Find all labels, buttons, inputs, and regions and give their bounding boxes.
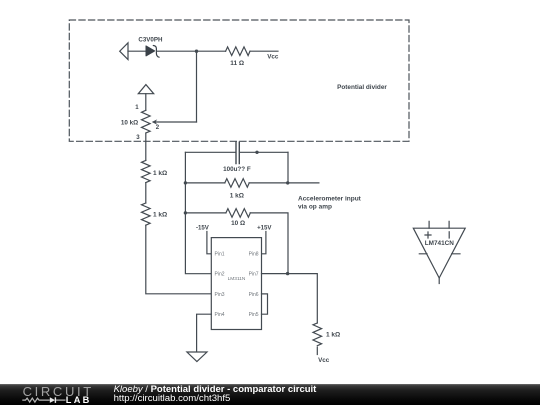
svg-text:Pin4: Pin4 (215, 312, 225, 318)
pin label Pin7 (249, 272, 259, 278)
junction dot (left rail / 10 ohm row) (184, 211, 187, 214)
pin label Pin4 (215, 312, 225, 318)
svg-text:Pin7: Pin7 (249, 272, 259, 278)
label: Potential divider (337, 84, 387, 91)
wire: Pin4 to ground (197, 314, 212, 352)
resistor R6 10 Ohm (horizontal) (226, 209, 250, 218)
op-amp power pin stubs (419, 253, 460, 255)
svg-text:+15V: +15V (257, 225, 272, 232)
dashed enclosure box (Potential divider) (69, 20, 409, 141)
net label: +15V (257, 225, 272, 232)
pin label Pin5 (249, 312, 259, 318)
svg-text:Pin6: Pin6 (249, 292, 259, 298)
wire: 1k row left segment (185, 182, 224, 184)
wire: output node right and down to R7 (288, 274, 318, 323)
label: 1 kOhm (R5) (230, 192, 244, 199)
svg-text:1 kΩ: 1 kΩ (153, 211, 167, 218)
wire: top node down to wiper (196, 51, 198, 122)
potentiometer R2 10k body (142, 110, 151, 133)
wire: diode cathode to node junction (157, 50, 226, 52)
svg-text:Accelerometer input: Accelerometer input (298, 196, 362, 203)
pin number 1 (135, 104, 139, 111)
svg-text:1 kΩ: 1 kΩ (153, 170, 167, 177)
label: LM741CN (425, 240, 455, 247)
label: 1 kOhm (R7) (326, 332, 340, 339)
wire: R4 down and right to Pin3 (146, 225, 212, 294)
pin label Pin2 (215, 272, 225, 278)
svg-text:2: 2 (156, 124, 160, 131)
svg-text:Vcc: Vcc (267, 54, 279, 61)
svg-text:100u?? F: 100u?? F (223, 166, 251, 173)
svg-text:Pin2: Pin2 (215, 272, 225, 278)
svg-text:1 kΩ: 1 kΩ (326, 332, 340, 339)
wire: Pin6-Pin5 strap (262, 294, 268, 314)
svg-text:11 Ω: 11 Ω (230, 60, 244, 67)
resistor R1 11 Ohm (226, 47, 250, 56)
wire: capacitor right plate to right rail (240, 151, 288, 153)
svg-text:Pin8: Pin8 (249, 252, 259, 258)
label: C3V0PH (138, 36, 163, 43)
wire: Pin7 to output node (262, 273, 288, 275)
port P2 (up-pointing terminal above potentiometer) (138, 85, 153, 94)
svg-text:1: 1 (135, 104, 139, 111)
svg-text:10 kΩ: 10 kΩ (121, 120, 138, 127)
wire: port P2 to potentiometer pin1 (145, 94, 147, 111)
label: 10 kOhm (121, 120, 138, 127)
svg-text:1 kΩ: 1 kΩ (230, 192, 244, 199)
IC U1 LM311N body (211, 238, 261, 330)
port P1 (left-pointing input terminal) (120, 43, 128, 60)
resistor R4 1 kOhm (vertical, lower) (142, 203, 151, 225)
svg-text:Pin5: Pin5 (249, 312, 259, 318)
wire: R7 to Vcc (316, 347, 318, 354)
annotation: Accelerometer input via op amp (298, 196, 362, 211)
wiper arrowhead of potentiometer R2 (152, 119, 158, 124)
wire: top row left segment to capacitor (185, 151, 235, 153)
svg-text:via op amp: via op amp (298, 204, 332, 211)
junction dot (right rail / 1k row) (286, 181, 289, 184)
svg-text:Pin3: Pin3 (215, 292, 225, 298)
junction dot (capacitor row) (255, 151, 258, 154)
op-amp - input mark (rotated) (448, 232, 450, 238)
svg-text:LM311N: LM311N (228, 276, 246, 282)
wire: +15V to Pin8 (262, 232, 266, 254)
svg-text:Potential divider: Potential divider (337, 84, 387, 91)
resistor R3 1 kOhm (vertical, upper) (142, 160, 151, 182)
svg-text:Vcc: Vcc (318, 357, 330, 364)
label: 1 kOhm (R4) (153, 211, 167, 218)
label: 1 kOhm (R3) (153, 170, 167, 177)
resistor R7 1 kOhm (vertical, bottom right) (313, 323, 322, 346)
label: 10 Ohm (R6) (231, 220, 245, 227)
svg-text:10 Ω: 10 Ω (231, 220, 245, 227)
wire: R3 to R4 (145, 183, 147, 203)
wire: 10 ohm row right, down to Pin7 node (250, 213, 288, 274)
resistor R5 1 kOhm (horizontal) (225, 179, 249, 188)
pin label Pin3 (215, 292, 225, 298)
svg-text:C3V0PH: C3V0PH (138, 36, 163, 43)
wire: left rail down to Pin2 (185, 152, 211, 273)
wire: right rail (cap row to 1k row) (287, 152, 289, 183)
net label: Vcc (bottom) (318, 357, 330, 364)
pin label Pin1 (215, 252, 225, 258)
svg-text:Pin1: Pin1 (215, 252, 225, 258)
wire: 10 ohm row left segment (185, 212, 226, 214)
net label: -15V (196, 225, 210, 232)
ground symbol (187, 352, 207, 362)
wire: 1k row right segment with stub (249, 182, 319, 184)
wire: port P1 to diode anode (128, 50, 146, 52)
wire: R1 to Vcc (250, 50, 278, 52)
label: 100u?? F (223, 166, 251, 173)
wire: -15V to Pin1 (207, 232, 211, 254)
wire: potentiometer pin3 down to R3 (145, 134, 147, 161)
pin label Pin6 (249, 292, 259, 298)
pin number 2 (156, 124, 160, 131)
op-amp U2 LM741CN body (413, 228, 465, 278)
junction dot (Pin7 node) (286, 272, 289, 275)
wire: wiper horizontal (156, 121, 197, 123)
junction dot (top node) (195, 50, 198, 53)
label: LM311N (228, 276, 246, 282)
net label: Vcc (top) (267, 54, 279, 61)
svg-text:3: 3 (136, 134, 140, 141)
zener diode D1 (C3V0PH) (146, 46, 159, 58)
op-amp + input mark (425, 232, 431, 238)
label: 11 Ohm (230, 60, 244, 67)
op-amp output pin stub (438, 278, 440, 284)
capacitor C1 plates (236, 142, 239, 163)
svg-text:-15V: -15V (196, 225, 210, 232)
pin label Pin8 (249, 252, 259, 258)
pin number 3 (136, 134, 140, 141)
op-amp input pin stubs (429, 221, 449, 228)
junction dot (left rail / 1k row) (184, 181, 187, 184)
svg-text:LM741CN: LM741CN (425, 240, 455, 247)
